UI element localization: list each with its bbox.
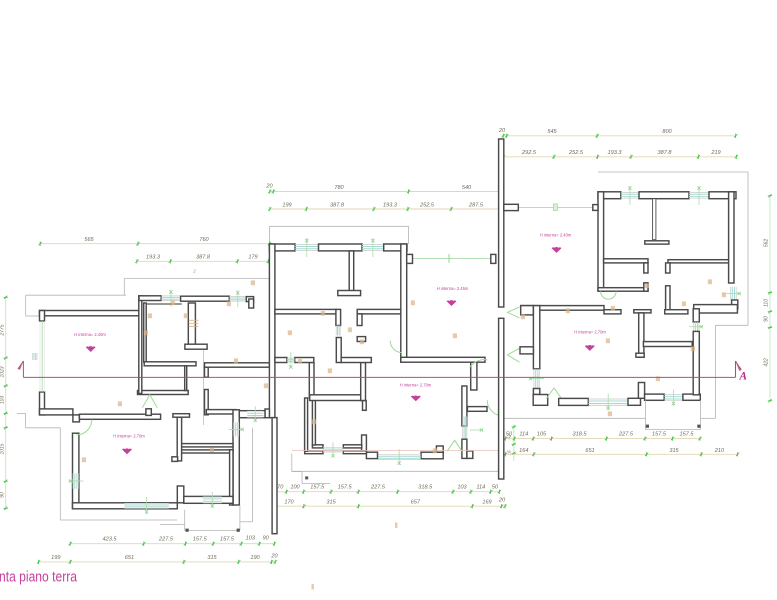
svg-text:nta piano terra: nta piano terra — [0, 570, 78, 586]
section line A-A — [23, 376, 735, 378]
door chevron party lower — [508, 348, 520, 362]
section line left jog — [22, 361, 24, 377]
window living bottom — [588, 398, 628, 400]
parcel thin line — [203, 350, 205, 425]
svg-text:318.5: 318.5 — [418, 485, 433, 491]
bagno window — [323, 447, 343, 449]
middle unit right wall — [401, 244, 407, 362]
right unit bottom wall ne — [694, 305, 738, 313]
middle unit horiz wall — [467, 407, 487, 412]
bagno inner left wall — [312, 398, 315, 445]
interior post lower — [336, 338, 341, 363]
left unit wall pillar — [73, 415, 80, 422]
left unit lower horizontal wall — [79, 414, 160, 419]
left unit hall top wall seg1 — [139, 296, 161, 301]
green link line between party wall and right unit — [518, 206, 593, 208]
svg-text:199: 199 — [51, 555, 60, 561]
svg-text:20: 20 — [498, 128, 506, 134]
svg-text:227.5: 227.5 — [158, 537, 174, 543]
window link wall — [247, 410, 263, 412]
window middle top 1 — [295, 244, 318, 246]
terrace edge line — [292, 470, 503, 472]
salmon guide line — [292, 450, 499, 452]
right unit left wall — [598, 192, 604, 291]
door arc bottom-left unit entry — [77, 420, 92, 435]
roof overhang outline left unit bottom — [17, 412, 26, 414]
middle unit wall y360 seg2 — [295, 358, 314, 363]
door leaf V left unit — [142, 395, 157, 408]
svg-text:114: 114 — [519, 431, 528, 437]
dimension chain right-top line 2 (292.5/252.5/193.3/387.8/219) — [503, 156, 737, 158]
dimension chain middle-bottom line 2 — [274, 505, 505, 507]
roof overhang outline left unit top — [124, 278, 269, 280]
window right wall — [729, 287, 731, 300]
svg-text:170: 170 — [284, 499, 294, 505]
right unit east wall upper — [693, 309, 699, 322]
entry porch outline — [184, 510, 186, 531]
door chevron living sw — [547, 388, 562, 399]
dimension chain left-top line 2 (193.3/387.8/179) — [137, 260, 269, 262]
middle unit wall stub right — [407, 254, 413, 263]
svg-text:565: 565 — [84, 237, 94, 243]
right unit hall bottom wall — [643, 342, 692, 347]
right unit wall stub — [593, 205, 598, 211]
svg-text:252.5: 252.5 — [419, 202, 435, 208]
window room bottom — [203, 496, 222, 498]
svg-text:169: 169 — [482, 499, 491, 505]
middle unit corridor wall — [310, 395, 365, 401]
right unit bottom wall seg1 — [559, 398, 589, 405]
svg-text:157.5: 157.5 — [338, 485, 353, 491]
door tag marks — [171, 300, 175, 305]
svg-text:800: 800 — [662, 129, 672, 135]
svg-text:H interna= 2.40m: H interna= 2.40m — [540, 232, 572, 237]
salmon guide line right unit — [558, 404, 640, 406]
right unit living top wall step — [604, 310, 621, 314]
window left hall 2 — [229, 296, 246, 298]
svg-text:193.3: 193.3 — [608, 150, 623, 156]
left unit hall right wall — [139, 296, 142, 394]
middle unit wall seg C — [341, 358, 371, 363]
right unit ne wall return — [666, 263, 670, 273]
right unit top wall seg2 — [639, 192, 689, 199]
middle unit garden wall — [272, 418, 277, 534]
right unit bottom riser — [638, 383, 644, 399]
right unit hall T cap — [634, 310, 651, 313]
bagno outer bottom wall — [305, 451, 323, 454]
svg-text:387.8: 387.8 — [196, 255, 211, 261]
svg-text:193.3: 193.3 — [146, 255, 161, 261]
svg-text:318.5: 318.5 — [573, 431, 588, 437]
svg-text:387.8: 387.8 — [658, 150, 673, 156]
svg-text:20: 20 — [498, 498, 506, 504]
left unit mid horizontal wall — [144, 362, 196, 366]
left unit hall top wall seg3 — [246, 297, 253, 302]
svg-text:103: 103 — [0, 396, 5, 405]
svg-text:227.5: 227.5 — [370, 485, 386, 491]
svg-text:422: 422 — [764, 358, 770, 367]
svg-text:100: 100 — [290, 485, 300, 491]
party wall stub — [504, 204, 519, 210]
terrace wall stub — [491, 254, 496, 263]
window bottom wall — [124, 502, 168, 504]
terrace boundary green line middle unit — [413, 258, 491, 260]
svg-text:H interna= 2.70m: H interna= 2.70m — [113, 434, 145, 439]
small vertical dimension middle-right (52/16) — [513, 424, 515, 461]
roof overhang outline right unit — [598, 171, 748, 173]
middle unit riser wall — [471, 362, 477, 390]
svg-text:193.3: 193.3 — [383, 202, 398, 208]
tiny tan mark 2 — [312, 584, 314, 590]
link wall to middle unit — [205, 363, 270, 367]
svg-text:H interna= 2.70m: H interna= 2.70m — [400, 383, 432, 388]
window right top 1 — [621, 191, 639, 193]
left unit glazed wall (window strip) — [41, 321, 43, 392]
link wall to bottom-left unit — [239, 411, 265, 418]
svg-text:90: 90 — [0, 492, 5, 498]
middle unit vert piece — [357, 314, 362, 326]
dimension chain left-top line 1 (565/760) — [39, 243, 270, 245]
middle unit long wall — [401, 357, 485, 362]
svg-text:50: 50 — [492, 485, 499, 491]
middle unit cap — [357, 337, 365, 342]
right unit living left wall — [533, 306, 539, 369]
stem extension — [363, 401, 367, 411]
svg-text:157.5: 157.5 — [193, 537, 208, 543]
roof overhang outline middle unit — [270, 225, 409, 227]
door arc disimpegno — [390, 341, 402, 353]
dimension chain right-bottom line 2 — [503, 453, 737, 455]
window left hall — [161, 295, 180, 297]
svg-text:540: 540 — [462, 185, 472, 191]
bottom-left unit room top wall — [206, 410, 236, 414]
middle unit top wall seg2 — [319, 244, 363, 251]
dimension chain middle-top line 1 (20/780/540) — [270, 191, 503, 193]
bottom-left unit wall end — [177, 417, 181, 461]
left unit wc bottom wall — [138, 391, 189, 395]
party wall upper — [499, 139, 504, 307]
middle unit T wall cap — [338, 291, 361, 296]
right unit hall stem — [639, 313, 644, 357]
middle unit left wall jog — [265, 409, 269, 418]
svg-text:1023: 1023 — [0, 366, 5, 377]
svg-text:103: 103 — [246, 536, 256, 542]
dimension chain middle-top line 2 (199/387.8/193.3/252.5/287.5) — [270, 208, 502, 210]
svg-text:2: 2 — [192, 269, 196, 274]
middle unit bagno jog wall — [362, 435, 367, 453]
svg-text:292.5: 292.5 — [521, 150, 537, 156]
bagno inner bottom wall — [312, 445, 323, 448]
door leaf V symbol — [447, 440, 462, 451]
svg-text:423.5: 423.5 — [103, 537, 118, 543]
middle unit wall y360 seg1 — [275, 358, 287, 363]
middle unit lower-right L wall — [462, 439, 467, 458]
entry steps outline — [291, 454, 293, 472]
middle unit stem wall — [361, 363, 366, 401]
right unit ne room wall — [668, 260, 730, 263]
svg-text:90: 90 — [764, 316, 770, 322]
right unit living top wall — [521, 306, 604, 311]
left unit top wall — [40, 311, 140, 316]
bottom-left room bottom wall — [184, 496, 233, 503]
svg-text:315: 315 — [326, 499, 336, 505]
right unit sw corner — [533, 395, 548, 406]
middle unit top wall seg3 — [384, 244, 407, 251]
svg-text:164: 164 — [519, 448, 528, 454]
svg-text:157.5: 157.5 — [310, 485, 325, 491]
middle unit hall wall left — [275, 309, 336, 314]
right unit mid wall return 1 — [644, 263, 648, 273]
svg-text:90: 90 — [262, 536, 269, 542]
svg-text:210: 210 — [714, 448, 725, 454]
right unit bottom wall seg4 — [683, 394, 700, 400]
section line right end arrow — [735, 361, 737, 377]
svg-text:A: A — [738, 370, 747, 382]
svg-text:H interna= 2.45m: H interna= 2.45m — [437, 286, 469, 291]
window middle top 2 — [362, 244, 384, 246]
window mark left wall — [32, 353, 34, 360]
middle unit hall wall right — [357, 309, 401, 314]
svg-text:2775: 2775 — [0, 324, 5, 336]
right unit mid wall — [604, 259, 648, 263]
door arc interior — [470, 360, 488, 368]
left unit bottom-left wall — [40, 409, 73, 415]
bottom-left unit left wall — [73, 433, 79, 508]
svg-text:114: 114 — [476, 485, 485, 491]
window living left — [533, 369, 535, 389]
right unit bottom wall seg3 — [645, 394, 665, 400]
left unit left wall — [40, 311, 45, 322]
bagno outer left wall — [305, 398, 308, 451]
bottom-left unit inner right wall — [230, 450, 233, 505]
dimension chain bottom-left line 1 — [70, 543, 275, 545]
svg-text:157.5: 157.5 — [220, 537, 235, 543]
dimension chain right-bottom line 1 — [503, 438, 700, 440]
svg-text:760: 760 — [199, 237, 209, 243]
svg-text:20: 20 — [265, 184, 273, 190]
svg-text:287.5: 287.5 — [468, 202, 484, 208]
right unit sw room bottom wall — [598, 288, 648, 292]
svg-text:545: 545 — [547, 129, 557, 135]
right unit wall inner — [665, 310, 688, 314]
svg-text:219: 219 — [710, 150, 720, 156]
stair marks — [189, 319, 199, 321]
svg-text:315: 315 — [207, 555, 217, 561]
bottom-left unit bottom wall — [73, 503, 178, 509]
svg-text:252.5: 252.5 — [568, 150, 584, 156]
right unit east wall lower — [693, 331, 699, 394]
svg-text:199: 199 — [282, 202, 291, 208]
svg-text:227.5: 227.5 — [618, 431, 634, 437]
right porch outline — [644, 400, 646, 429]
svg-text:70: 70 — [277, 485, 284, 491]
svg-text:651: 651 — [125, 555, 134, 561]
vertical dimension chain left edge — [5, 296, 7, 510]
middle unit lower-right wall — [462, 386, 467, 426]
svg-text:179: 179 — [248, 255, 257, 261]
dimension chain bottom-left line 2 — [39, 561, 276, 563]
door arc to terrace — [487, 400, 503, 416]
svg-text:387.8: 387.8 — [330, 202, 345, 208]
bottom-left unit right wall — [233, 410, 239, 505]
bottom-left unit jog wall — [177, 486, 184, 503]
dimension chain right-top line 1 (20/545/800) — [503, 135, 736, 137]
right unit top wall seg3 — [709, 192, 736, 199]
middle unit bottom-right corner — [421, 452, 443, 459]
right unit lower left wall 2 — [533, 389, 539, 395]
window east wall — [693, 322, 695, 331]
window in right wall — [233, 422, 235, 436]
party wall lower — [499, 318, 504, 479]
middle unit top wall seg1 — [269, 244, 295, 251]
right unit vert wall — [666, 286, 670, 312]
svg-text:H interna= 2.40m: H interna= 2.40m — [74, 332, 106, 337]
svg-text:50: 50 — [506, 431, 513, 437]
right unit thin partition — [653, 199, 656, 240]
right unit mid wall return 2 — [644, 283, 648, 291]
tiny tan mark 1 — [395, 523, 397, 529]
right unit right wall corner — [732, 300, 738, 309]
svg-text:103: 103 — [457, 485, 467, 491]
right unit right wall — [729, 192, 734, 283]
right unit bottom wall seg2 — [628, 398, 641, 405]
svg-text:20: 20 — [270, 554, 278, 560]
interior glass post — [335, 326, 337, 336]
svg-text:657: 657 — [411, 499, 421, 505]
door chevron party upper — [508, 307, 520, 318]
left unit wc left wall — [144, 303, 147, 362]
svg-text:H interna= 2.70m: H interna= 2.70m — [574, 330, 606, 335]
window lower-right — [462, 417, 464, 440]
middle unit bottom wall piece — [366, 452, 377, 458]
right unit top wall seg1 — [598, 192, 621, 199]
terrace outline middle unit bottom — [252, 428, 254, 522]
svg-text:315: 315 — [669, 448, 679, 454]
window bottom ne — [664, 394, 683, 396]
svg-text:157.5: 157.5 — [652, 431, 667, 437]
middle unit left wall — [269, 244, 275, 418]
left unit hall top wall seg2 — [181, 296, 230, 301]
svg-text:1015: 1015 — [0, 443, 5, 454]
bottom-left unit double wall A — [181, 444, 234, 447]
vertical dimension chain right edge (562/110/90/422) — [769, 195, 771, 401]
svg-text:651: 651 — [585, 448, 594, 454]
right unit left stub — [520, 347, 533, 354]
bottom-left unit double wall B — [181, 450, 234, 453]
svg-text:105: 105 — [537, 431, 547, 437]
svg-text:780: 780 — [334, 185, 344, 191]
window in left wall — [72, 473, 74, 489]
double door arcs — [601, 291, 609, 299]
window right top 2 — [689, 191, 709, 193]
window bottom long — [378, 454, 422, 456]
middle unit door post — [336, 309, 341, 325]
left unit stair room vertical wall — [205, 367, 209, 377]
svg-text:562: 562 — [764, 239, 770, 248]
svg-text:190: 190 — [250, 555, 260, 561]
dimension chain middle-bottom line 1 — [274, 491, 500, 493]
left unit stair partition — [188, 303, 195, 344]
svg-text:110: 110 — [764, 299, 770, 307]
svg-text:157.5: 157.5 — [680, 431, 695, 437]
interior window strip — [287, 357, 295, 359]
middle unit T wall stem — [349, 251, 354, 291]
